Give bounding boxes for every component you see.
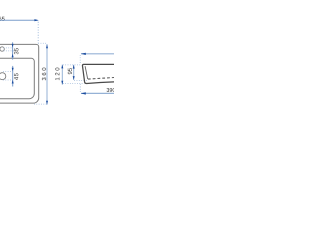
dim 35 arrow down	[12, 44, 14, 48]
dim 120 extension dotted bottom	[63, 83, 84, 85]
dim 360 extension dotted top	[38, 42, 47, 44]
tap hole circle	[0, 47, 4, 51]
side profile inner wall	[85, 66, 88, 79]
dim 45 leader dotted top	[3, 71, 13, 73]
dim text 35	[14, 48, 18, 54]
dim 360 arrow up	[46, 44, 48, 48]
side profile outline	[82, 64, 114, 83]
bottom dim arrow left	[81, 92, 86, 94]
dim 120 arrow down	[61, 81, 63, 85]
basin outer rim (plan view, cut at left)	[0, 44, 39, 103]
dim 120 arrow up	[61, 65, 63, 69]
dim text 390 (cut at right edge)	[107, 88, 116, 92]
dim 120 line	[61, 65, 63, 85]
bottom dimension line 390	[81, 92, 114, 94]
side view top dim arrow left	[81, 53, 86, 55]
dim 35 line	[12, 42, 14, 59]
dim text 360	[42, 68, 46, 81]
dim text 45	[14, 73, 18, 80]
dim 45 arrow up	[12, 80, 14, 84]
dim 360 arrow down	[46, 101, 48, 105]
drain hole circle	[0, 73, 6, 80]
dim 45 line	[12, 66, 14, 87]
width dim arrow	[34, 19, 38, 21]
side view top dimension line	[81, 53, 114, 55]
dim 35 arrow up	[12, 54, 14, 58]
dim 360 line	[46, 44, 48, 104]
dim text 565 (cut at left edge)	[0, 17, 5, 21]
dim 35 leader dotted top	[4, 47, 13, 49]
side profile hidden bottom line (dashed)	[88, 78, 114, 80]
bottom dim extension dotted	[79, 84, 81, 93]
dim text 95	[68, 68, 72, 74]
dim 45 arrow down	[12, 68, 14, 72]
background	[0, 0, 114, 144]
dim 95 arrow up	[73, 65, 75, 69]
basin bowl inner edge	[0, 58, 34, 98]
extension line (dotted, right edge of basin)	[37, 22, 39, 43]
dim text 120	[55, 68, 59, 81]
dim 35 leader dotted bottom	[4, 50, 15, 52]
dim 45 leader dotted bottom	[3, 79, 13, 81]
dim 95 line	[73, 65, 75, 80]
dim 95 arrow down	[73, 76, 75, 80]
side view top dim extension dotted	[79, 55, 81, 64]
dim 360 extension dotted bottom	[34, 103, 48, 105]
dim 120 extension dotted top	[63, 64, 82, 66]
width dimension line	[0, 19, 38, 21]
dim 95 extension dotted bottom	[74, 80, 88, 82]
